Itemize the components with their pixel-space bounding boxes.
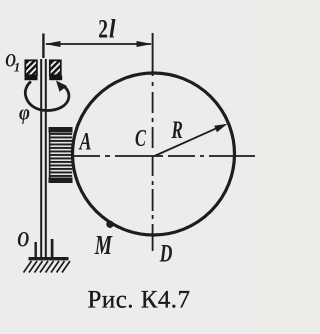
shaft (two vertical lines) <box>41 59 46 258</box>
dimension label 2l <box>98 15 115 44</box>
svg-text:l: l <box>109 16 116 44</box>
svg-text:φ: φ <box>19 101 30 125</box>
rotation arrow phi (loop around shaft) <box>25 82 69 111</box>
radius arrow R <box>155 124 228 156</box>
vertical centerline through C and D <box>152 33 154 76</box>
svg-text:Рис. К4.7: Рис. К4.7 <box>88 287 191 314</box>
svg-text:R: R <box>171 116 183 144</box>
svg-text:1: 1 <box>14 60 20 75</box>
arrowhead of rotation arrow <box>56 81 67 92</box>
svg-text:O: O <box>17 228 29 252</box>
ground hatching <box>24 261 71 273</box>
point M dot <box>106 221 113 228</box>
svg-text:A: A <box>78 128 92 156</box>
hatched bracket joining shaft to disk at A <box>49 127 73 183</box>
top bearing left block <box>25 60 38 80</box>
extension tick over shaft <box>42 34 44 59</box>
ground line <box>29 257 69 260</box>
horizontal centerline through A and C <box>73 155 255 157</box>
bottom bearing right tick <box>51 239 54 258</box>
dimension line 2l <box>45 41 153 47</box>
label O1 <box>5 50 20 75</box>
bottom bearing left tick <box>35 242 37 258</box>
svg-text:D: D <box>159 239 173 267</box>
svg-text:2: 2 <box>98 15 108 43</box>
disk (circle) <box>73 73 235 235</box>
top bearing right block <box>49 60 62 80</box>
svg-text:M: M <box>94 231 113 261</box>
svg-text:C: C <box>135 126 146 152</box>
